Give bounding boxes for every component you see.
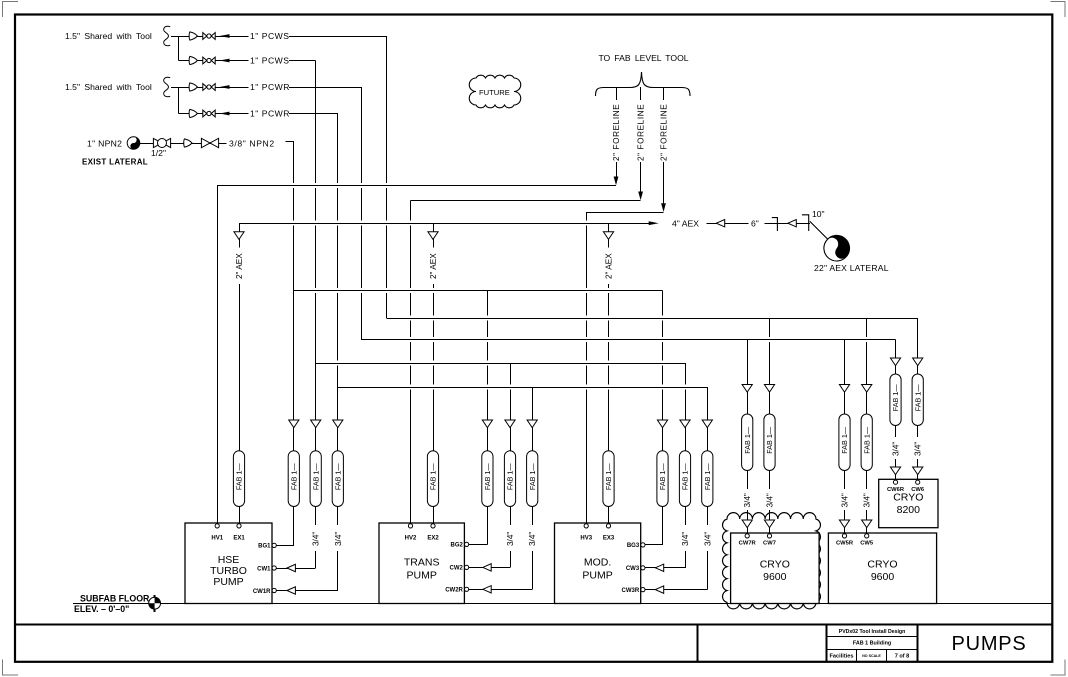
wire CW2 stub [469,567,510,569]
label project name [839,629,906,635]
wire column CW2R [527,387,537,589]
svg-text:6": 6" [751,219,759,229]
lateral connection symbol 22in AEX [819,230,855,266]
wire foreline header 3 (HV3) [586,212,663,214]
valve NPN2 1/2in [153,138,170,147]
pump HSE TURBO box [185,523,272,604]
svg-text:CW6: CW6 [911,487,925,493]
wire column CW6R [890,340,900,480]
svg-text:3/4": 3/4" [892,442,901,456]
line tag FAB1 CW5 [861,414,872,471]
line tag FAB1 PCWR2-CW1R [332,451,343,507]
wire PCWR branch pair [171,87,361,114]
port CW1R [253,588,276,594]
wire column CW2 [505,363,515,567]
label 4in AEX [672,219,699,229]
svg-text:CRYO: CRYO [760,559,790,571]
label EXIST LATERAL [82,158,148,167]
title PUMPS [951,633,1026,655]
wire PCWR1 header (cryo CW return) [361,339,896,341]
svg-text:HV3: HV3 [580,536,592,542]
label 1in PCWR (line 1) [250,82,290,92]
label SUBFAB FLOOR [80,594,150,604]
port EX3 [603,524,615,542]
wire BG1 stub [277,545,294,547]
label 3/4in CW5 on CW5 [863,493,872,507]
label 3/4in CW1 on PCWS2-CW1 [312,532,321,546]
wire PCWR2 header (pump CW return) [338,387,708,389]
valve PCWS-2 [203,57,215,64]
label 3/4in CW6 on CW6 [914,442,923,456]
label 2in FORELINE 1 [612,104,621,161]
label 1in PCWS (line 2) [250,56,290,66]
svg-text:NO SCALE: NO SCALE [862,654,881,658]
FUTURE cloud [469,75,521,108]
reducer CW1 [287,564,295,571]
svg-text:2" AEX: 2" AEX [235,253,244,279]
wire CW3R stub [645,589,707,591]
lateral connection symbol NPN2 [127,137,140,150]
line tag FAB1 CW7 [764,414,775,471]
corner tick top-left [3,2,19,18]
label TO FAB LEVEL TOOL [598,53,688,63]
label 6in [751,219,759,229]
wire foreline 3 [661,87,666,212]
svg-text:PUMPS: PUMPS [951,633,1026,655]
wire CW1 stub [277,568,316,570]
svg-text:3/8" NPN2: 3/8" NPN2 [229,139,275,149]
label 22in AEX LATERAL [814,263,889,273]
line tag FAB1 PCWS2-CW1 [310,451,321,507]
CRYO 8200 box [879,479,938,527]
svg-text:3/4": 3/4" [703,532,712,546]
wire foreline 2 [638,87,643,200]
label building [853,641,891,647]
flow arrow PCWR-2 [220,112,230,116]
label 2in AEX on EX2 [429,253,438,279]
valve PCWR-1 [203,84,215,91]
svg-text:3/4": 3/4" [863,493,872,507]
svg-text:3/4": 3/4" [914,442,923,456]
wire column PCWR1 [361,87,363,340]
label 3/4in CW5R on CW5R [841,493,850,507]
label 3/4in CW3R on CW3R [703,532,712,546]
valve PCWS-1 [203,33,215,40]
port CW3 [626,566,645,572]
svg-text:CRYO: CRYO [867,559,897,571]
svg-text:7 of 8: 7 of 8 [895,653,910,659]
wire foreline header 1 (HV1) [217,185,616,187]
svg-text:2" AEX: 2" AEX [429,253,438,279]
wire column EX1 [234,223,244,523]
port CW1 [257,566,276,572]
wire CW2R stub [469,589,532,591]
check valve PCWS-2 [189,56,197,64]
svg-text:3/4": 3/4" [312,532,321,546]
label sheet 7 of 8 [895,653,910,659]
svg-text:PVDx02 Tool Install Design: PVDx02 Tool Install Design [839,629,906,635]
label Facilities [830,653,854,659]
wire column CW7 [764,318,774,533]
reducer AEX [716,220,724,227]
label 3/8in NPN2 [229,139,275,149]
pump MOD box [555,523,641,604]
check valve PCWR-1 [189,83,197,91]
reducer CW1R [287,587,295,594]
svg-text:CW5: CW5 [860,541,874,547]
port CW5 [860,534,874,547]
port BG3 [627,543,645,549]
line tag FAB1 CW6R [890,374,901,426]
svg-text:9600: 9600 [763,571,787,583]
svg-text:1" PCWS: 1" PCWS [250,56,290,66]
svg-text:PUMP: PUMP [213,576,243,588]
label 2in FORELINE 3 [660,104,669,161]
svg-text:CW2: CW2 [450,566,464,572]
wire column CW5R [839,340,849,534]
valve PCWR-2 [203,110,215,117]
CRYO 9600 unit 2 box [828,533,936,604]
wire BG3 stub [645,544,662,546]
check valve PCWR-2 [189,109,197,117]
wire column BG2 [482,291,492,545]
port CW5R [836,534,854,547]
label 2in AEX on EX3 [605,253,614,279]
svg-text:BG2: BG2 [451,543,464,549]
port HV1 [211,524,223,542]
wire column HV3 [586,212,588,523]
line tag FAB1 CW7R [742,414,753,471]
svg-text:CW1: CW1 [257,566,271,572]
port EX1 [233,524,245,542]
line tag FAB1 CW3R [702,451,713,507]
line tag FAB1 BG2 [482,451,493,507]
label 1in PCWS (line 1) [250,31,290,41]
port CW2 [450,565,469,571]
wire AEX header [239,223,810,225]
svg-text:9600: 9600 [871,571,895,583]
title block rows [827,637,918,662]
wire column EX3 [603,223,613,523]
label 3/4in CW7R on CW7R [743,493,752,507]
reducer CW3R [655,586,663,593]
label 1in PCWR (line 2) [250,109,290,119]
CRYO 9600 unit 1 cloud [722,513,820,609]
valve NPN2 gate [201,138,218,147]
svg-text:3/4": 3/4" [766,493,775,507]
wire column PCWS1 [386,36,388,318]
port CW2R [445,587,468,593]
svg-text:3/4": 3/4" [334,532,343,546]
corner tick bottom-right [1051,660,1066,676]
flow arrow AEX [649,221,659,225]
svg-text:1" PCWS: 1" PCWS [250,31,290,41]
label 3/4in CW3 on CW3 [681,532,690,546]
label 1.5in Shared with Tool (PCWR) [65,82,152,92]
flow arrow PCWR-1 [220,85,230,89]
line tag FAB1 CW6 [912,374,923,426]
port CW6 [911,480,925,493]
port CW7R [739,534,757,547]
svg-text:1" PCWR: 1" PCWR [250,109,290,119]
label 2in AEX on EX1 [235,253,244,279]
brace over forelines [596,72,691,96]
wire CW1R stub [277,590,338,592]
svg-text:4" AEX: 4" AEX [672,219,699,229]
label 3/4in CW7 on CW7 [766,493,775,507]
wire foreline 1 [614,87,619,185]
svg-text:8200: 8200 [897,504,921,516]
check valve NPN2 [184,139,192,147]
line tag FAB1 EX2 [427,451,438,507]
port CW3R [622,588,645,594]
svg-text:ELEV. – 0'–0": ELEV. – 0'–0" [74,604,129,614]
reducer AEX 2 [788,220,796,227]
wire column CW3 [680,363,690,568]
svg-text:HV1: HV1 [211,536,223,542]
label 2in FORELINE 2 [637,104,646,161]
svg-text:CW3R: CW3R [622,588,640,594]
label ELEV 0-0 [74,604,129,614]
corner tick bottom-left [3,660,19,676]
line tag FAB1 CW2R [527,451,538,507]
label 3/4in CW2 on CW2 [506,532,515,546]
svg-text:PUMP: PUMP [582,570,612,582]
line tag FAB1 CW5R [839,414,850,471]
svg-text:EXIST LATERAL: EXIST LATERAL [82,158,148,167]
wire foreline header 2 (HV2) [411,200,641,202]
svg-text:10": 10" [812,209,825,219]
port HV3 [580,524,592,542]
subfab floor line [73,603,1052,605]
label no scale [862,654,881,658]
corner tick top-right [1051,2,1066,18]
svg-text:2" FORELINE: 2" FORELINE [612,104,621,161]
port HV2 [405,524,417,542]
label 1/2in [151,148,166,158]
svg-text:3/4": 3/4" [528,532,537,546]
svg-text:3/4": 3/4" [841,493,850,507]
svg-text:CW5R: CW5R [836,541,854,547]
port BG2 [451,542,469,548]
wire PCWS branch pair [171,36,387,61]
wire column CW5 [862,318,872,533]
line tag FAB1 NPN2-BG1 [288,451,299,507]
CRYO 9600 unit 1 box [731,533,820,604]
svg-text:FAB 1 Building: FAB 1 Building [853,641,891,647]
wire BG2 stub [469,544,488,546]
label 1.5in Shared with Tool (PCWS) [65,31,152,41]
svg-text:CW3: CW3 [626,566,640,572]
svg-text:HV2: HV2 [405,536,417,542]
wire PCWS2 header (pump CW supply) [316,363,685,365]
line tag FAB1 CW3 [679,451,690,507]
wire PCWS1 header (cryo CW supply) [386,318,917,320]
wire AEX lateral drop [810,222,828,240]
svg-text:2" FORELINE: 2" FORELINE [637,104,646,161]
svg-text:1.5" Shared with Tool: 1.5" Shared with Tool [65,82,152,92]
pipe break squiggle PCWS [164,26,171,45]
svg-text:TRANS: TRANS [404,557,440,569]
port EX2 [427,524,439,542]
flow arrow PCWS-1 [220,34,230,38]
svg-text:CW1R: CW1R [253,589,271,595]
wire column CW6 [913,318,923,479]
svg-text:2" AEX: 2" AEX [605,253,614,279]
svg-text:CW6R: CW6R [887,487,905,493]
svg-text:PUMP: PUMP [407,570,437,582]
pipe size break 1 [772,218,778,231]
svg-text:BG3: BG3 [627,543,640,549]
line tag FAB1 CW2 [504,451,515,507]
label 3/4in CW6R on CW6R [892,442,901,456]
svg-text:TO FAB LEVEL TOOL: TO FAB LEVEL TOOL [598,53,688,63]
wire NPN2 header (BG supply) [294,290,663,292]
svg-text:SUBFAB FLOOR: SUBFAB FLOOR [80,594,150,604]
svg-text:22" AEX LATERAL: 22" AEX LATERAL [814,263,889,273]
svg-text:EX2: EX2 [427,536,439,542]
wire column PCWR2-CW1R [333,114,343,591]
svg-text:1" PCWR: 1" PCWR [250,82,290,92]
svg-text:Facilities: Facilities [830,653,854,659]
reducer CW2 [483,564,491,571]
port BG1 [258,543,276,549]
svg-text:3/4": 3/4" [681,532,690,546]
svg-text:MOD.: MOD. [584,557,611,569]
label 3/4in CW1R on PCWR2-CW1R [334,532,343,546]
flow arrow PCWS-2 [220,59,230,63]
check valve PCWS-1 [189,32,197,40]
pipe break squiggle PCWR [164,77,171,96]
line tag FAB1 EX3 [603,451,614,507]
svg-text:1.5" Shared with Tool: 1.5" Shared with Tool [65,31,152,41]
port CW7 [763,534,776,547]
svg-text:EX1: EX1 [233,536,245,542]
svg-text:CW7: CW7 [763,541,776,547]
svg-text:1" NPN2: 1" NPN2 [87,139,122,149]
wire column EX2 [428,223,438,523]
pipe size break 2 [802,215,809,231]
port CW6R [887,480,905,493]
wire column PCWS2-CW1 [311,61,321,569]
line tag FAB1 EX1 [233,451,244,507]
wire column CW3R [702,387,712,590]
wire column HV1 [217,185,219,523]
svg-text:3/4": 3/4" [506,532,515,546]
svg-text:CRYO: CRYO [893,492,923,504]
pump TRANS box [379,523,464,604]
reducer CW2R [483,586,491,593]
wire NPN2 row [140,142,294,144]
svg-text:FUTURE: FUTURE [479,88,510,97]
wire column NPN2-BG1 [289,142,299,546]
svg-text:BG1: BG1 [258,544,271,550]
svg-text:3/4": 3/4" [743,493,752,507]
label 3/4in CW2R on CW2R [528,532,537,546]
svg-text:CW7R: CW7R [739,541,757,547]
line tag FAB1 BG3 [657,451,668,507]
svg-text:EX3: EX3 [603,536,615,542]
reducer CW3 [655,564,663,571]
svg-text:2" FORELINE: 2" FORELINE [660,104,669,161]
elevation marker [149,595,161,612]
svg-text:1/2": 1/2" [151,148,166,158]
wire column CW7R [742,340,752,534]
title block frame [15,624,1052,661]
svg-text:CW2R: CW2R [445,588,463,594]
wire CW3 stub [645,567,685,569]
label 10in [812,209,825,219]
label 1in NPN2 [87,139,122,149]
wire column HV2 [410,200,412,523]
wire column BG3 [657,291,667,545]
